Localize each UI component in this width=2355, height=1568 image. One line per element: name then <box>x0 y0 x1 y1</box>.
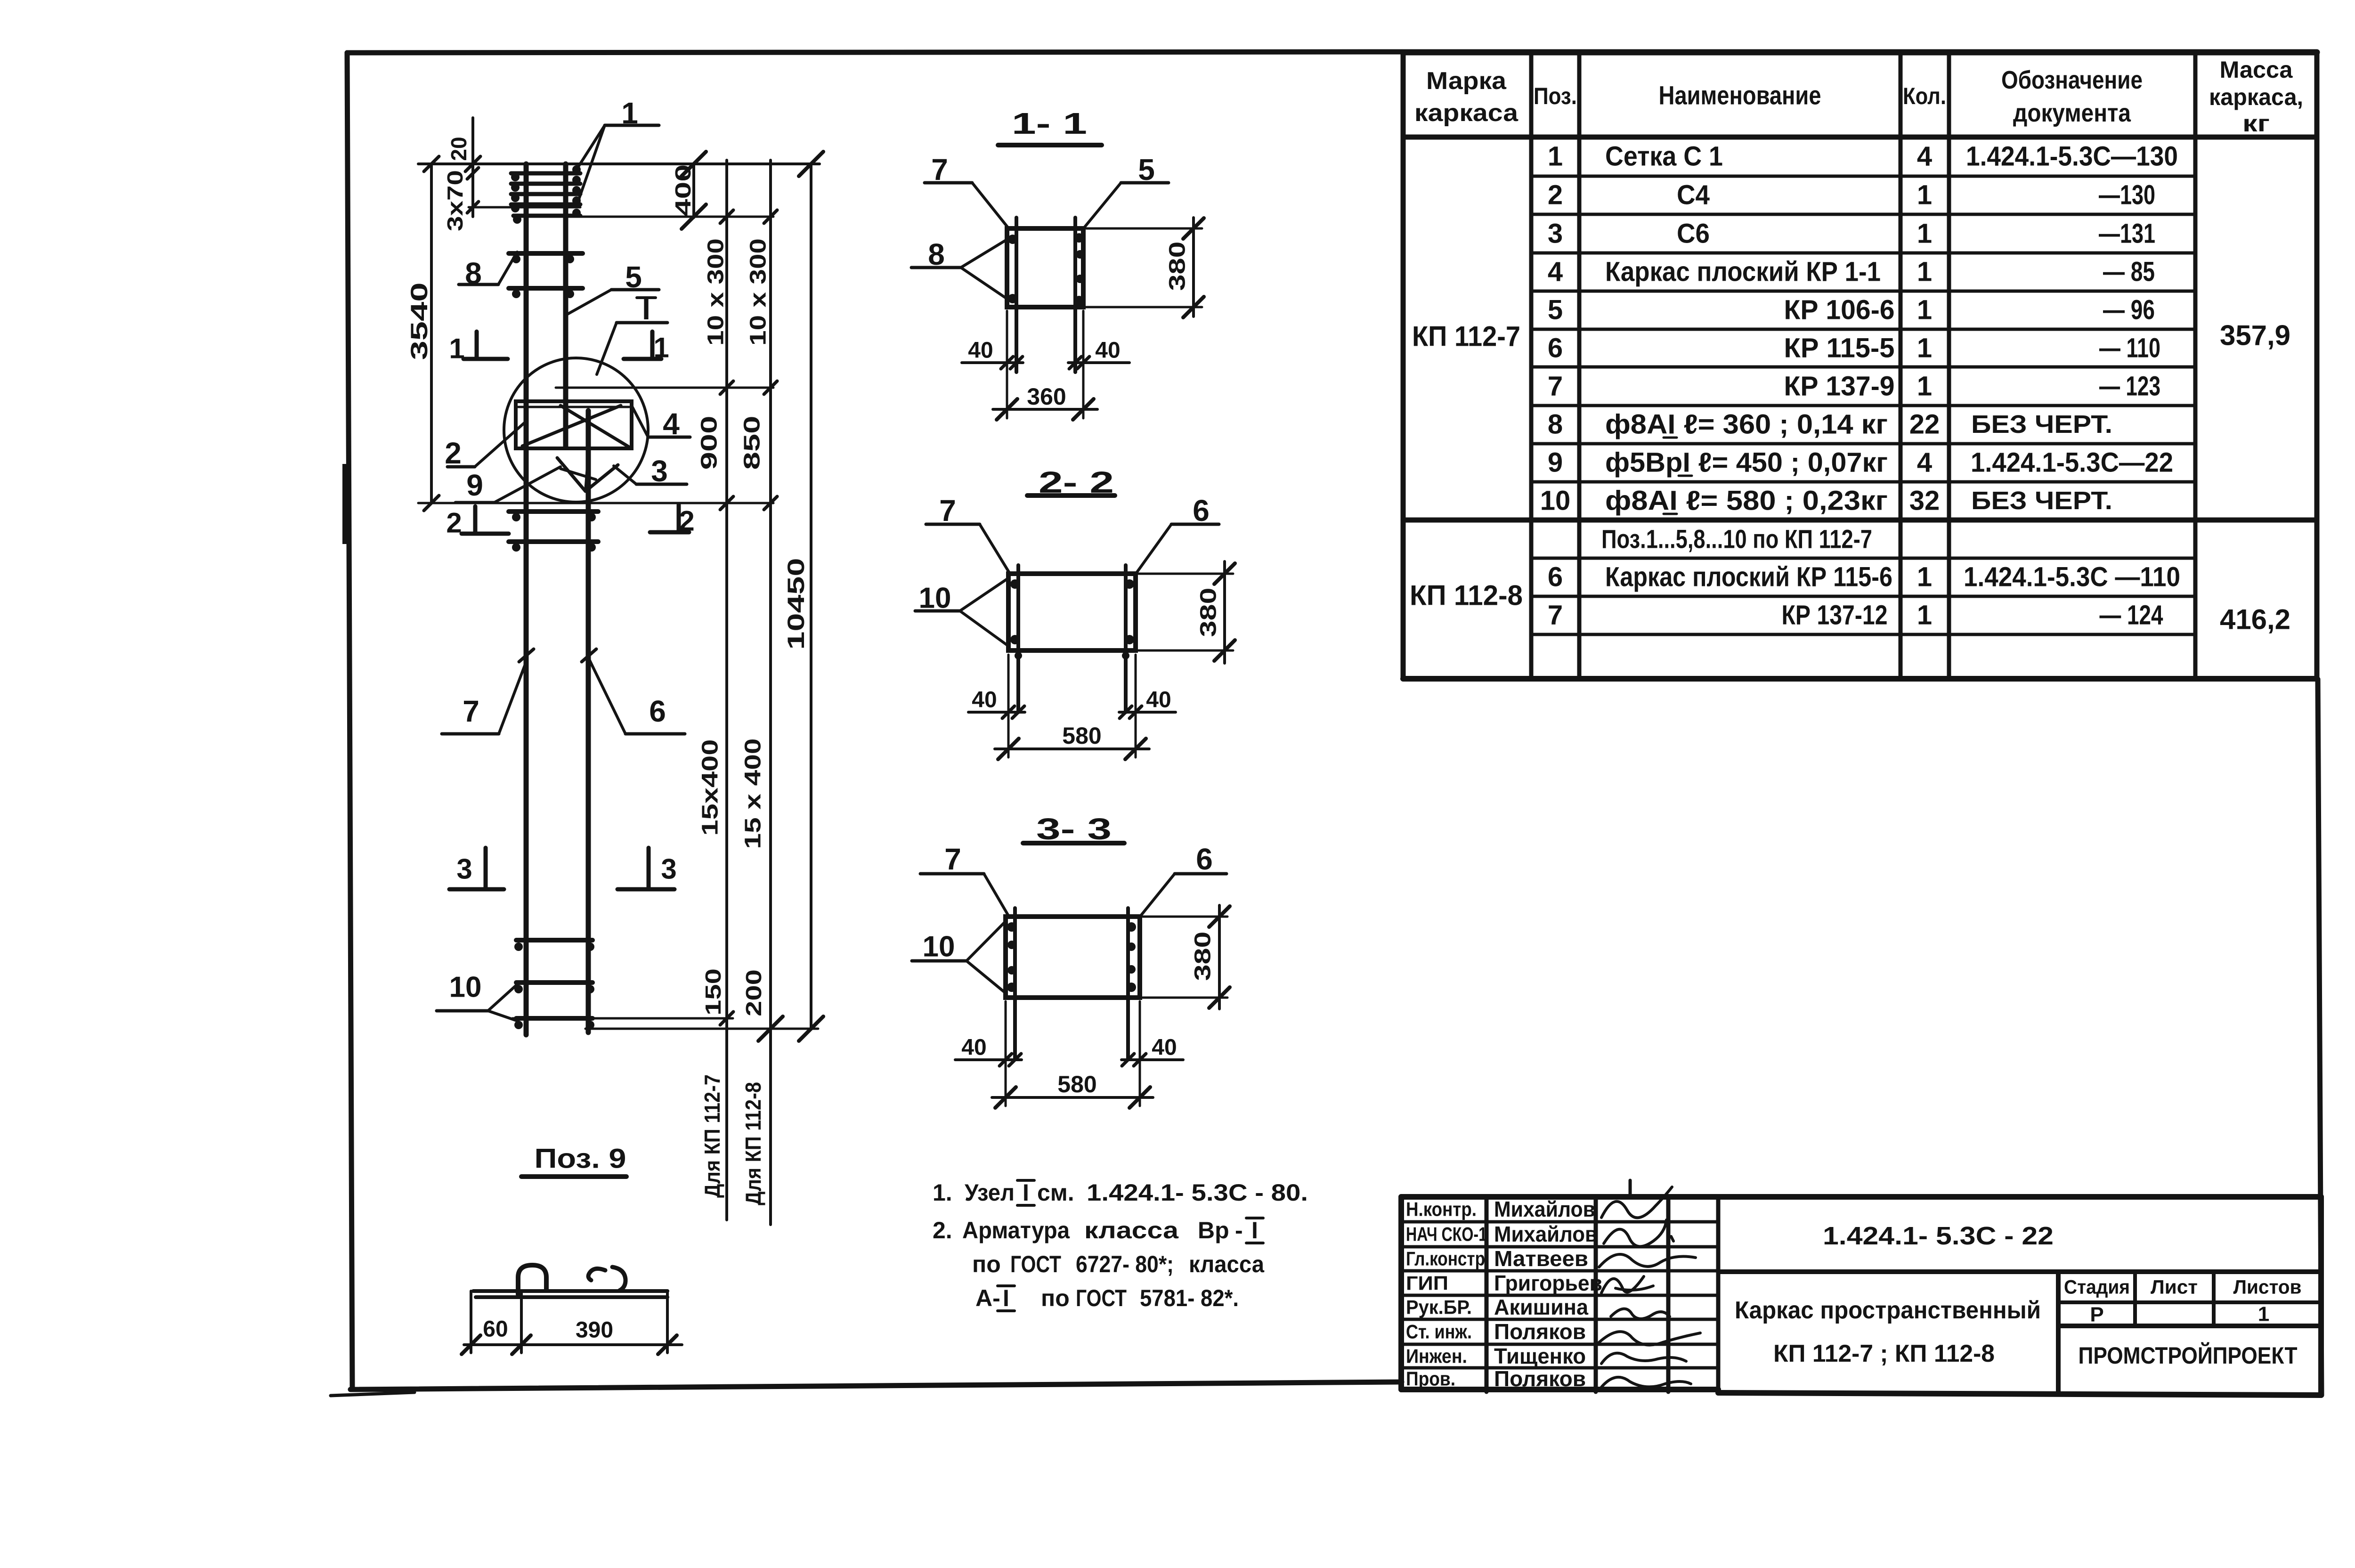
svg-text:Михайлов: Михайлов <box>1494 1197 1595 1221</box>
svg-text:Наименование: Наименование <box>1659 81 1821 110</box>
svg-text:документа: документа <box>2013 99 2131 127</box>
svg-text:60: 60 <box>483 1317 508 1342</box>
svg-text:см.: см. <box>1037 1179 1074 1206</box>
svg-text:20: 20 <box>447 137 471 161</box>
svg-text:Поз.: Поз. <box>1534 83 1577 109</box>
svg-text:1: 1 <box>1917 600 1932 631</box>
svg-text:360: 360 <box>1027 383 1066 410</box>
svg-text:380: 380 <box>1196 588 1221 637</box>
svg-text:по: по <box>972 1251 1001 1277</box>
svg-text:Узел: Узел <box>965 1179 1015 1206</box>
svg-text:КП 112-7 ; КП 112-8: КП 112-7 ; КП 112-8 <box>1773 1340 1995 1367</box>
svg-text:1.424.1- 5.3С - 80.: 1.424.1- 5.3С - 80. <box>1087 1179 1308 1206</box>
svg-text:5781- 82*.: 5781- 82*. <box>1140 1285 1239 1311</box>
svg-text:1: 1 <box>1917 371 1932 402</box>
svg-text:40: 40 <box>972 688 997 713</box>
svg-text:1: 1 <box>449 333 464 365</box>
svg-text:150: 150 <box>701 968 725 1016</box>
svg-text:Каркас плоский КР 115-6: Каркас плоский КР 115-6 <box>1605 562 1892 593</box>
svg-text:ГОСТ: ГОСТ <box>1010 1251 1061 1277</box>
svg-text:1.424.1-5.3С—22: 1.424.1-5.3С—22 <box>1971 447 2173 478</box>
svg-text:10: 10 <box>923 931 955 963</box>
svg-text:ф8АI ℓ= 580 ; 0,23кг: ф8АI ℓ= 580 ; 0,23кг <box>1605 486 1888 516</box>
svg-text:1.424.1-5.3С—130: 1.424.1-5.3С—130 <box>1966 141 2178 172</box>
svg-text:Пров.: Пров. <box>1406 1368 1455 1390</box>
svg-text:КР 106-6: КР 106-6 <box>1784 295 1895 325</box>
svg-text:357,9: 357,9 <box>2220 320 2290 351</box>
svg-text:—131: —131 <box>2099 219 2155 249</box>
svg-text:32: 32 <box>1909 486 1940 516</box>
svg-text:6: 6 <box>1196 842 1213 876</box>
svg-text:БЕЗ ЧЕРТ.: БЕЗ ЧЕРТ. <box>1971 410 2112 439</box>
svg-text:4: 4 <box>1548 257 1563 287</box>
svg-text:7: 7 <box>463 694 479 728</box>
svg-text:1: 1 <box>653 332 669 364</box>
svg-text:Акишина: Акишина <box>1494 1295 1588 1319</box>
svg-text:I: I <box>1003 1285 1009 1311</box>
svg-text:Вр: Вр <box>1198 1217 1229 1243</box>
svg-text:3: 3 <box>456 853 472 885</box>
svg-text:ф8АI ℓ= 360 ; 0,14 кг: ф8АI ℓ= 360 ; 0,14 кг <box>1605 409 1888 440</box>
svg-text:—130: —130 <box>2099 180 2155 211</box>
svg-text:6: 6 <box>1548 562 1563 593</box>
svg-text:Поляков: Поляков <box>1494 1366 1586 1391</box>
svg-text:1: 1 <box>1917 219 1932 249</box>
svg-text:— 124: — 124 <box>2100 600 2163 631</box>
svg-text:— 110: — 110 <box>2099 333 2160 364</box>
svg-text:3: 3 <box>661 853 676 885</box>
svg-text:6: 6 <box>1193 494 1210 528</box>
svg-text:Гл.констр: Гл.констр <box>1406 1248 1485 1270</box>
svg-text:КП 112-8: КП 112-8 <box>1410 580 1523 611</box>
svg-text:Тищенко: Тищенко <box>1494 1344 1586 1368</box>
svg-text:8: 8 <box>1548 409 1563 440</box>
svg-text:Михайлов: Михайлов <box>1494 1222 1598 1246</box>
svg-text:Поляков: Поляков <box>1494 1319 1586 1344</box>
svg-text:2: 2 <box>679 505 694 537</box>
svg-text:Ст. инж.: Ст. инж. <box>1406 1321 1472 1343</box>
svg-text:С4: С4 <box>1677 180 1710 211</box>
svg-text:кг: кг <box>2242 110 2270 137</box>
svg-text:7: 7 <box>1548 371 1563 402</box>
svg-text:-: - <box>1235 1217 1243 1243</box>
svg-text:4: 4 <box>1917 447 1932 478</box>
svg-text:2.: 2. <box>933 1217 952 1243</box>
svg-text:3: 3 <box>1548 219 1563 249</box>
svg-text:I: I <box>1023 1179 1029 1206</box>
svg-text:Инжен.: Инжен. <box>1406 1345 1467 1367</box>
svg-text:5: 5 <box>1548 295 1563 325</box>
svg-text:3х70: 3х70 <box>443 170 467 231</box>
svg-text:3540: 3540 <box>406 283 432 360</box>
svg-text:10: 10 <box>1540 486 1571 516</box>
svg-text:390: 390 <box>576 1318 613 1343</box>
svg-text:2: 2 <box>1548 180 1563 211</box>
svg-text:Н.контр.: Н.контр. <box>1406 1198 1477 1220</box>
svg-text:НАЧ СКО-1: НАЧ СКО-1 <box>1406 1223 1487 1245</box>
svg-text:1.: 1. <box>933 1179 952 1206</box>
svg-text:Арматура: Арматура <box>962 1217 1070 1243</box>
svg-text:4: 4 <box>1917 141 1932 172</box>
svg-text:Кол.: Кол. <box>1903 83 1946 109</box>
svg-text:2: 2 <box>445 436 462 470</box>
svg-text:15 х 400: 15 х 400 <box>741 739 766 849</box>
svg-text:7: 7 <box>944 842 961 876</box>
svg-text:15х400: 15х400 <box>698 739 723 836</box>
svg-text:6: 6 <box>1548 333 1563 364</box>
svg-text:Каркас пространственный: Каркас пространственный <box>1735 1297 2041 1324</box>
svg-text:10450: 10450 <box>783 558 809 650</box>
svg-text:Р: Р <box>2090 1303 2103 1326</box>
svg-text:класса: класса <box>1084 1217 1179 1243</box>
svg-text:каркаса,: каркаса, <box>2209 84 2303 110</box>
svg-text:40: 40 <box>968 338 993 363</box>
svg-text:1.424.1- 5.3С - 22: 1.424.1- 5.3С - 22 <box>1823 1222 2054 1250</box>
svg-text:1.424.1-5.3С —110: 1.424.1-5.3С —110 <box>1964 562 2180 593</box>
svg-text:380: 380 <box>1191 932 1216 981</box>
svg-text:Для КП 112-8: Для КП 112-8 <box>741 1082 765 1205</box>
svg-text:Стадия: Стадия <box>2064 1276 2130 1298</box>
svg-text:900: 900 <box>697 416 722 470</box>
svg-text:40: 40 <box>1095 338 1120 363</box>
svg-text:10 х 300: 10 х 300 <box>746 238 771 346</box>
svg-text:ф5ВрI ℓ= 450 ; 0,07кг: ф5ВрI ℓ= 450 ; 0,07кг <box>1605 447 1888 478</box>
svg-text:40: 40 <box>961 1035 986 1060</box>
svg-text:— 123: — 123 <box>2099 371 2160 402</box>
svg-text:1: 1 <box>1917 257 1932 287</box>
svg-text:Для КП 112-7: Для КП 112-7 <box>700 1074 724 1198</box>
svg-text:1: 1 <box>2258 1303 2269 1326</box>
svg-text:А-: А- <box>975 1285 1000 1311</box>
svg-text:7: 7 <box>1548 600 1563 631</box>
svg-text:БЕЗ ЧЕРТ.: БЕЗ ЧЕРТ. <box>1971 487 2112 515</box>
svg-text:Масса: Масса <box>2220 57 2293 83</box>
svg-text:10: 10 <box>449 971 482 1004</box>
svg-text:Григорьев: Григорьев <box>1494 1271 1602 1295</box>
svg-text:Каркас плоский КР 1-1: Каркас плоский КР 1-1 <box>1605 257 1881 287</box>
svg-text:400: 400 <box>671 164 695 216</box>
svg-text:ГОСТ: ГОСТ <box>1076 1285 1127 1311</box>
svg-text:9: 9 <box>466 468 483 502</box>
svg-text:КР 137-12: КР 137-12 <box>1782 600 1888 631</box>
svg-text:— 85: — 85 <box>2103 257 2155 287</box>
svg-text:Марка: Марка <box>1426 67 1507 95</box>
svg-text:9: 9 <box>1548 447 1563 478</box>
svg-text:1: 1 <box>1917 180 1932 211</box>
svg-text:7: 7 <box>939 494 956 528</box>
svg-text:1: 1 <box>1917 562 1932 593</box>
svg-text:Обозначение: Обозначение <box>2001 66 2143 94</box>
svg-text:22: 22 <box>1909 409 1940 440</box>
svg-text:Сетка С 1: Сетка С 1 <box>1605 141 1723 172</box>
svg-text:1: 1 <box>1548 141 1563 172</box>
svg-text:1- 1: 1- 1 <box>1012 106 1087 140</box>
svg-text:каркаса: каркаса <box>1414 99 1519 127</box>
svg-text:КР 137-9: КР 137-9 <box>1784 371 1895 402</box>
svg-text:по: по <box>1041 1285 1070 1311</box>
svg-text:200: 200 <box>741 969 766 1016</box>
svg-text:Матвеев: Матвеев <box>1494 1246 1588 1271</box>
svg-text:2: 2 <box>446 507 462 539</box>
svg-text:1: 1 <box>1917 295 1932 325</box>
svg-text:КР 115-5: КР 115-5 <box>1784 333 1895 364</box>
svg-text:40: 40 <box>1152 1035 1177 1060</box>
svg-text:I: I <box>1251 1217 1258 1243</box>
svg-text:380: 380 <box>1165 242 1190 291</box>
svg-text:Лист: Лист <box>2151 1276 2198 1298</box>
svg-text:6: 6 <box>649 694 666 728</box>
svg-text:6727- 80*;: 6727- 80*; <box>1076 1251 1174 1277</box>
svg-text:класса: класса <box>1189 1251 1265 1277</box>
svg-text:580: 580 <box>1062 723 1101 749</box>
svg-text:ПРОМСТРОЙПРОЕКТ: ПРОМСТРОЙПРОЕКТ <box>2079 1342 2298 1369</box>
svg-text:— 96: — 96 <box>2103 295 2155 325</box>
svg-text:КП 112-7: КП 112-7 <box>1412 321 1520 352</box>
svg-text:Поз.1...5,8...10 по КП 112-7: Поз.1...5,8...10 по КП 112-7 <box>1601 524 1872 554</box>
svg-text:С6: С6 <box>1677 219 1710 249</box>
svg-text:850: 850 <box>740 416 765 470</box>
svg-text:1: 1 <box>1917 333 1932 364</box>
svg-text:40: 40 <box>1146 688 1171 713</box>
svg-text:Листов: Листов <box>2233 1276 2302 1298</box>
svg-text:416,2: 416,2 <box>2220 604 2290 635</box>
svg-text:Поз. 9: Поз. 9 <box>535 1144 626 1174</box>
svg-text:580: 580 <box>1057 1071 1096 1097</box>
svg-text:Рук.БР.: Рук.БР. <box>1406 1296 1472 1318</box>
svg-text:ГИП: ГИП <box>1406 1272 1448 1294</box>
svg-text:10 х 300: 10 х 300 <box>704 238 729 346</box>
